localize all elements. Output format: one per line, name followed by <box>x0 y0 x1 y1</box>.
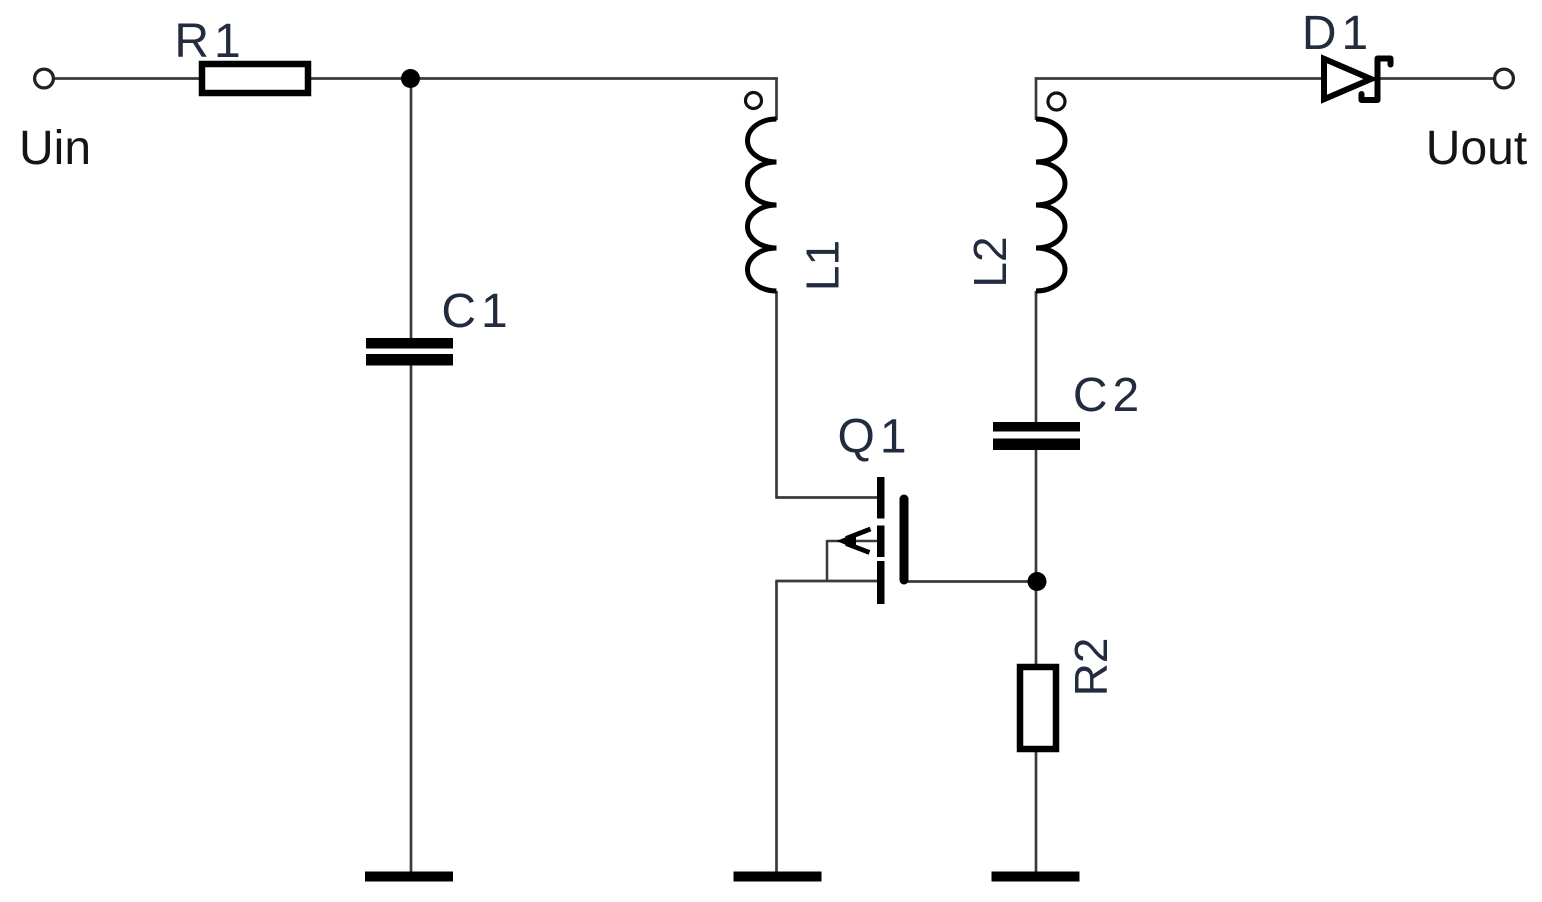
svg-text:L2: L2 <box>964 236 1016 287</box>
terminal Uin <box>35 69 54 88</box>
wire gate to junction <box>906 580 1037 583</box>
svg-text:Q1: Q1 <box>837 411 911 464</box>
wire diode to Uout <box>1379 77 1496 80</box>
wire C2 to junction to R2 <box>1035 450 1038 665</box>
diode D1 triangle <box>1324 59 1371 99</box>
capacitor C2 <box>993 422 1080 450</box>
node junction 2 <box>1028 572 1047 591</box>
svg-text:Uout: Uout <box>1426 122 1527 175</box>
resistor R1 <box>202 64 308 93</box>
svg-text:L1: L1 <box>797 240 849 291</box>
svg-text:C1: C1 <box>441 285 512 338</box>
wire source down to ground <box>775 581 778 874</box>
wire L1 coil to drain corner <box>775 291 778 498</box>
wire source horizontal <box>775 580 880 583</box>
terminal Uout <box>1495 69 1514 88</box>
wire L2 top to diode <box>1035 77 1322 80</box>
transistor Q1 gate bar <box>900 495 909 585</box>
capacitor C1 <box>366 338 453 366</box>
inductor L1 <box>748 119 777 291</box>
wire L2 corner down to coil <box>1035 77 1038 120</box>
svg-text:R1: R1 <box>174 15 245 68</box>
diode D1 schottky cathode <box>1362 59 1391 101</box>
wire body down to source <box>826 540 829 582</box>
wire Uin to R1 <box>52 77 200 80</box>
transistor Q1 body arrow <box>837 529 871 553</box>
resistor R2 <box>1020 667 1056 749</box>
transistor Q1 channel segments <box>877 477 885 604</box>
ground 3 <box>992 872 1080 882</box>
wire C1 to ground <box>410 365 413 874</box>
inductor L1 polarity dot <box>746 93 762 109</box>
wire R2 to ground <box>1035 751 1038 874</box>
svg-text:D1: D1 <box>1302 7 1373 60</box>
wire body line <box>827 540 878 543</box>
svg-text:Uin: Uin <box>19 122 91 175</box>
inductor L2 <box>1036 119 1065 291</box>
wire L1 corner down to coil <box>775 77 778 120</box>
wire drain horizontal <box>775 496 880 499</box>
ground 2 <box>734 872 822 882</box>
wire node down to C1 <box>410 79 413 340</box>
svg-text:R2: R2 <box>1065 638 1117 697</box>
wire R1 to L1 top corner <box>310 77 778 80</box>
svg-text:C2: C2 <box>1073 369 1144 422</box>
wire L2 coil to C2 <box>1035 291 1038 423</box>
inductor L2 polarity dot <box>1048 93 1065 110</box>
node junction 1 <box>401 69 420 88</box>
ground 1 <box>365 872 453 882</box>
